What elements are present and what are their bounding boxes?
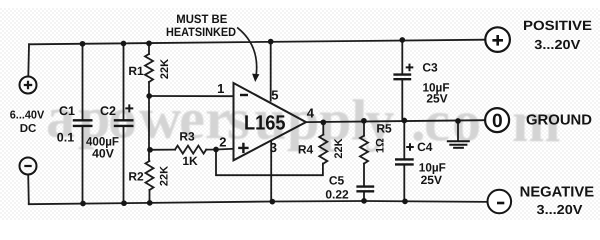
svg-text:2: 2 — [219, 135, 226, 150]
svg-text:MUST BE: MUST BE — [176, 12, 227, 26]
svg-text:POSITIVE: POSITIVE — [523, 18, 592, 33]
svg-text:3...20V: 3...20V — [534, 37, 580, 52]
svg-text:DC: DC — [20, 123, 37, 135]
svg-text:R5: R5 — [376, 122, 392, 136]
svg-text:R2: R2 — [128, 169, 144, 183]
svg-text:3...20V: 3...20V — [537, 202, 583, 217]
svg-text:4: 4 — [307, 106, 315, 121]
svg-text:0: 0 — [492, 111, 503, 132]
svg-text:R3: R3 — [179, 129, 195, 143]
svg-text:R1: R1 — [128, 64, 144, 78]
svg-text:1Ω: 1Ω — [375, 138, 387, 153]
svg-text:C3: C3 — [422, 61, 438, 75]
svg-text:5: 5 — [271, 88, 278, 103]
svg-text:C2: C2 — [100, 104, 116, 118]
svg-text:40V: 40V — [92, 147, 115, 161]
svg-text:HEATSINKED: HEATSINKED — [166, 25, 236, 39]
svg-text:R4: R4 — [298, 142, 314, 156]
svg-text:0.22: 0.22 — [325, 187, 349, 201]
svg-text:22K: 22K — [159, 166, 171, 186]
svg-text:0.1: 0.1 — [57, 131, 74, 145]
svg-text:25V: 25V — [426, 92, 447, 106]
svg-text:6...40V: 6...40V — [10, 109, 45, 121]
svg-text:GROUND: GROUND — [526, 113, 592, 129]
svg-text:22K: 22K — [333, 138, 345, 158]
svg-text:25V: 25V — [421, 173, 442, 187]
svg-text:3: 3 — [270, 140, 277, 155]
svg-text:1K: 1K — [182, 154, 198, 168]
svg-text:L165: L165 — [244, 111, 286, 134]
svg-text:22K: 22K — [159, 59, 171, 79]
svg-text:C5: C5 — [329, 173, 345, 187]
svg-text:C1: C1 — [59, 104, 75, 118]
svg-text:1: 1 — [217, 81, 224, 96]
svg-text:C4: C4 — [417, 140, 433, 154]
svg-text:NEGATIVE: NEGATIVE — [520, 184, 595, 200]
